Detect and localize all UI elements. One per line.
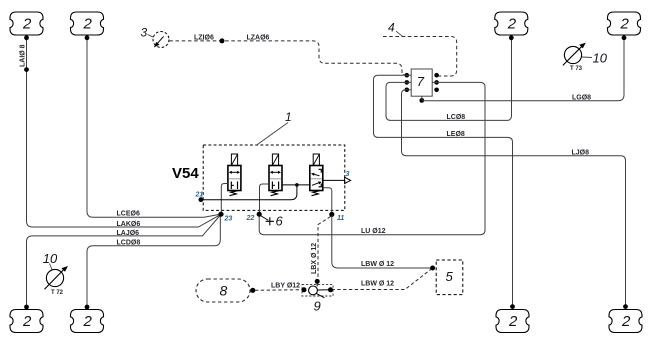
air bellows 2 (top-right): [608, 12, 641, 35]
wire LU (unit 7 right bottom port to port 22): [259, 82, 485, 234]
node dot bellow7: [510, 304, 515, 309]
valve block V54 dashed border: [203, 145, 345, 210]
node dot port 11: [329, 212, 334, 217]
wire valve1 to port 23: [221, 184, 228, 214]
dashed wire LZ (test point 3 to valve unit 7 left top port): [169, 41, 405, 75]
dashed wire 4 (to valve unit 7 right top port): [383, 37, 457, 77]
wire LG (unit 7 bottom to top-right bellow): [422, 38, 624, 101]
wire LE (unit 7 left top port to bottom bellow 7): [374, 75, 513, 307]
svg-text:2: 2: [620, 16, 630, 33]
dashed wire LBW lower (T fitting 9 to box 5): [332, 269, 432, 290]
solenoid valve 3: [310, 154, 323, 196]
wire valve2 to valve3: [282, 184, 310, 186]
node dot unit 7 bottom: [419, 98, 424, 103]
svg-text:LCØ8: LCØ8: [447, 114, 466, 121]
air bellows 2 (bottom-left 2): [71, 310, 104, 333]
distribution box 5: [436, 260, 463, 295]
node dot LAI junction: [24, 67, 29, 72]
svg-text:2: 2: [621, 313, 631, 330]
node dot silencer 8: [250, 288, 255, 293]
T fitting 9: [302, 279, 334, 314]
solenoid valve 1: [228, 154, 241, 196]
svg-text:LGØ8: LGØ8: [572, 94, 591, 101]
svg-text:9: 9: [314, 299, 321, 314]
svg-text:LU Ø12: LU Ø12: [361, 228, 386, 235]
svg-text:1: 1: [285, 110, 292, 124]
node junction between valve2 and valve3: [295, 183, 299, 187]
svg-text:LZAØ6: LZAØ6: [247, 35, 270, 42]
air bellows 2 (top-mid-right): [495, 12, 528, 35]
port dot unit 7 left 3: [405, 88, 410, 93]
wire LAK (top-left bellow 1 to port 23): [27, 38, 220, 227]
test point 3 (dashed circle with arrow): [141, 26, 170, 48]
wire LBW solid (port 11 down to box 5): [332, 216, 432, 269]
svg-text:V54: V54: [172, 165, 199, 182]
port dot unit 7 right 3: [434, 88, 439, 93]
svg-text:LZIØ6: LZIØ6: [194, 35, 214, 42]
air bellows 2 (bottom-left 1): [10, 310, 43, 333]
node dot port 22: [257, 212, 262, 217]
svg-text:10: 10: [593, 51, 608, 66]
svg-text:4: 4: [388, 21, 395, 35]
svg-text:7: 7: [417, 74, 425, 89]
wire LCD (port 23 to bottom-left bellow 2): [87, 216, 220, 307]
wire LCE (top-left bellow 2 to port 23): [87, 38, 220, 217]
port dot unit 7 right 2: [434, 80, 439, 85]
port dot unit 7 left 1: [405, 73, 410, 78]
svg-text:3: 3: [141, 26, 148, 40]
svg-text:LBX Ø 12: LBX Ø 12: [311, 243, 318, 274]
svg-text:LAIØ 8: LAIØ 8: [20, 44, 27, 67]
svg-text:2: 2: [22, 313, 32, 330]
svg-text:T 72: T 72: [51, 290, 64, 296]
svg-text:2: 2: [508, 313, 518, 330]
svg-text:22: 22: [246, 215, 255, 222]
svg-text:3: 3: [346, 171, 350, 178]
node dot bellow3: [509, 35, 514, 40]
svg-text:LBY Ø12: LBY Ø12: [271, 283, 300, 290]
node dot bellow6: [85, 305, 90, 310]
wire LAJ (port 23 to bottom-left bellow 1): [27, 216, 221, 307]
port dot unit 7 right 1: [434, 73, 439, 78]
solenoid valve 2: [269, 154, 282, 196]
port dot unit 7 left 2: [405, 80, 410, 85]
silencer 8 (dashed capsule): [196, 279, 250, 302]
svg-text:LAJØ6: LAJØ6: [117, 230, 140, 237]
svg-text:8: 8: [220, 283, 228, 299]
svg-text:T 73: T 73: [570, 66, 583, 72]
wire valve2 to port 22: [260, 184, 270, 213]
wire LC (unit 7 left mid port to top bellow 3): [386, 38, 512, 121]
air bellows 2 (top-left 2): [71, 12, 104, 35]
svg-text:LBW Ø 12: LBW Ø 12: [361, 280, 394, 287]
svg-text:2: 2: [83, 16, 93, 33]
wire valve3 to exhaust triangle: [323, 179, 345, 181]
pressure gauge 10 (top right, T 73): [563, 43, 608, 72]
svg-text:LJØ8: LJØ8: [572, 150, 590, 157]
svg-text:2: 2: [507, 16, 517, 33]
ECU valve unit 7: [411, 69, 432, 96]
label 6 with cross leader: [261, 216, 269, 221]
svg-text:2: 2: [83, 313, 93, 330]
svg-text:LCDØ8: LCDØ8: [117, 240, 141, 247]
node dot bellow2 top: [85, 35, 90, 40]
node dot bellow1 top: [24, 35, 29, 40]
svg-text:6: 6: [276, 214, 284, 229]
node dot port 23: [218, 212, 223, 217]
pressure gauge 10 (bottom left, T 72): [43, 251, 68, 296]
svg-text:LAKØ6: LAKØ6: [117, 221, 141, 228]
svg-text:5: 5: [446, 269, 454, 284]
air bellows 2 (bottom-right): [609, 310, 642, 333]
wire LJ (unit 7 left bottom port to bottom-right bellow): [402, 90, 626, 307]
air bellows 2 (top-left 1): [10, 12, 43, 35]
svg-text:23: 23: [224, 215, 233, 222]
svg-text:11: 11: [337, 215, 344, 222]
wire valve3 to port 11: [323, 188, 332, 213]
exhaust triangle port 3: [345, 177, 351, 183]
dashed wire LBY (silencer 8 to T fitting 9): [255, 289, 303, 292]
svg-text:2: 2: [22, 16, 32, 33]
svg-text:LBW Ø 12: LBW Ø 12: [361, 261, 394, 268]
node dot LZ junction: [220, 38, 225, 43]
svg-text:LEØ8: LEØ8: [447, 131, 465, 138]
node dot box 5: [430, 266, 435, 271]
dashed wire LBX (port 11 to T fitting 9): [318, 217, 331, 280]
node dot port 21: [199, 197, 204, 202]
air bellows 2 (bottom-mid-right): [496, 310, 529, 333]
node dot bellow8: [623, 304, 628, 309]
svg-text:10: 10: [43, 251, 58, 266]
wire port 21 line: [202, 186, 297, 200]
node dot bellow5: [24, 305, 29, 310]
node dot bellow4: [622, 35, 627, 40]
svg-text:21: 21: [195, 192, 204, 199]
svg-text:LCEØ6: LCEØ6: [117, 211, 140, 218]
